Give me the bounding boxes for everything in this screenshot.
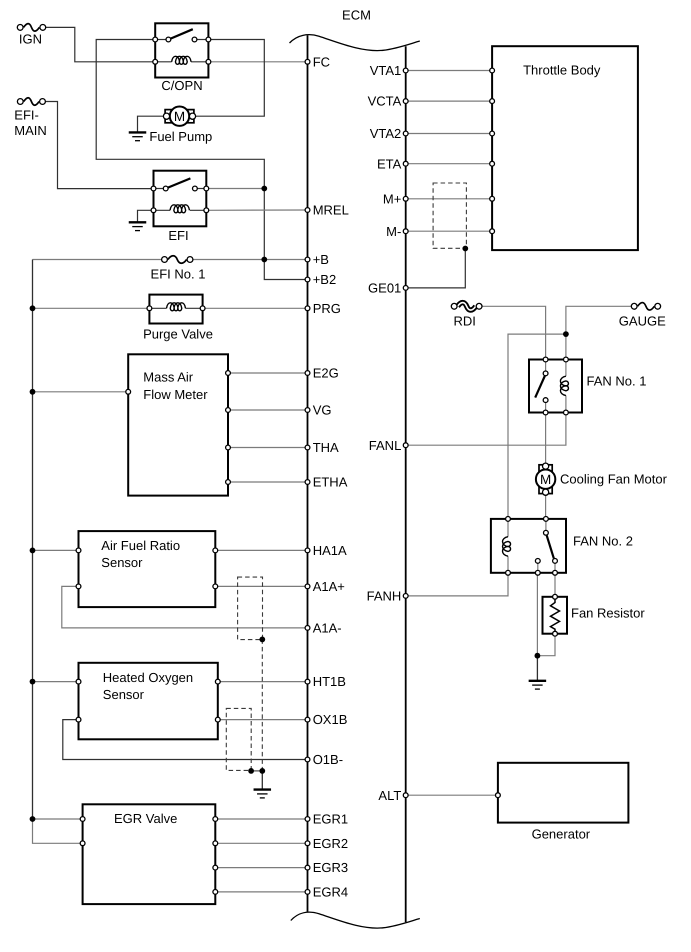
svg-text:E2G: E2G [313, 366, 339, 381]
svg-text:Mass Air: Mass Air [143, 369, 194, 384]
svg-text:EFI: EFI [168, 228, 188, 243]
svg-text:Sensor: Sensor [103, 687, 145, 702]
svg-text:EFI-: EFI- [14, 108, 39, 123]
svg-text:HA1A: HA1A [313, 543, 347, 558]
svg-text:MAIN: MAIN [14, 123, 47, 138]
svg-text:VTA1: VTA1 [370, 63, 402, 78]
svg-text:Throttle Body: Throttle Body [523, 63, 601, 78]
svg-text:EFI No. 1: EFI No. 1 [151, 266, 206, 281]
svg-text:FAN No. 1: FAN No. 1 [587, 374, 647, 389]
svg-text:FAN No. 2: FAN No. 2 [573, 534, 633, 549]
svg-text:MREL: MREL [313, 203, 349, 218]
svg-text:C/OPN: C/OPN [161, 78, 202, 93]
svg-text:EGR4: EGR4 [313, 885, 348, 900]
svg-text:M: M [174, 109, 185, 124]
svg-text:Cooling Fan Motor: Cooling Fan Motor [560, 472, 668, 487]
svg-text:RDI: RDI [454, 314, 476, 329]
svg-text:IGN: IGN [19, 32, 42, 47]
svg-text:+B2: +B2 [313, 272, 337, 287]
svg-text:PRG: PRG [313, 301, 341, 316]
svg-text:Flow Meter: Flow Meter [143, 387, 208, 402]
svg-text:ECM: ECM [342, 8, 371, 23]
svg-text:A1A+: A1A+ [313, 579, 345, 594]
svg-text:ETHA: ETHA [313, 475, 348, 490]
svg-text:EGR1: EGR1 [313, 812, 348, 827]
svg-text:VG: VG [313, 403, 332, 418]
svg-text:EGR3: EGR3 [313, 860, 348, 875]
svg-text:OX1B: OX1B [313, 712, 348, 727]
svg-text:Heated Oxygen: Heated Oxygen [103, 670, 193, 685]
svg-text:ALT: ALT [378, 788, 401, 803]
svg-text:GE01: GE01 [368, 281, 401, 296]
svg-text:GAUGE: GAUGE [619, 314, 666, 329]
svg-text:FC: FC [313, 54, 330, 69]
svg-text:M: M [540, 472, 551, 487]
svg-text:HT1B: HT1B [313, 674, 346, 689]
svg-text:Generator: Generator [532, 827, 591, 842]
svg-text:FANL: FANL [369, 438, 402, 453]
svg-text:EGR Valve: EGR Valve [114, 811, 177, 826]
svg-text:VTA2: VTA2 [370, 126, 402, 141]
svg-text:Fuel Pump: Fuel Pump [149, 129, 212, 144]
svg-text:M-: M- [386, 224, 401, 239]
svg-text:O1B-: O1B- [313, 752, 343, 767]
svg-text:+B: +B [313, 252, 329, 267]
svg-text:M+: M+ [383, 191, 401, 206]
svg-text:A1A-: A1A- [313, 621, 342, 636]
svg-text:Purge Valve: Purge Valve [143, 327, 213, 342]
svg-text:Fan Resistor: Fan Resistor [571, 606, 645, 621]
svg-text:VCTA: VCTA [368, 94, 402, 109]
svg-text:ETA: ETA [377, 156, 402, 171]
svg-text:FANH: FANH [367, 589, 402, 604]
svg-text:THA: THA [313, 440, 339, 455]
svg-text:Sensor: Sensor [101, 555, 143, 570]
svg-text:Air Fuel Ratio: Air Fuel Ratio [101, 538, 180, 553]
svg-text:EGR2: EGR2 [313, 836, 348, 851]
